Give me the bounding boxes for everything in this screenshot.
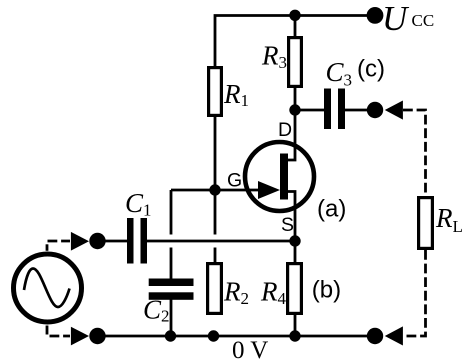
svg-text:S: S	[281, 214, 294, 236]
svg-text:(b): (b)	[312, 277, 341, 304]
svg-text:0 V: 0 V	[232, 337, 268, 362]
svg-text:C3: C3	[326, 57, 353, 90]
svg-text:C1: C1	[125, 188, 152, 220]
svg-text:G: G	[227, 170, 242, 192]
svg-text:RL: RL	[435, 203, 463, 236]
svg-text:CC: CC	[412, 11, 435, 30]
svg-text:R4: R4	[260, 277, 287, 309]
svg-text:R2: R2	[223, 277, 249, 309]
svg-text:R3: R3	[261, 41, 287, 73]
svg-text:D: D	[278, 119, 292, 141]
svg-text:(c): (c)	[357, 56, 385, 83]
svg-text:(a): (a)	[317, 196, 346, 223]
svg-text:R1: R1	[223, 79, 249, 110]
svg-text:U: U	[382, 0, 410, 38]
